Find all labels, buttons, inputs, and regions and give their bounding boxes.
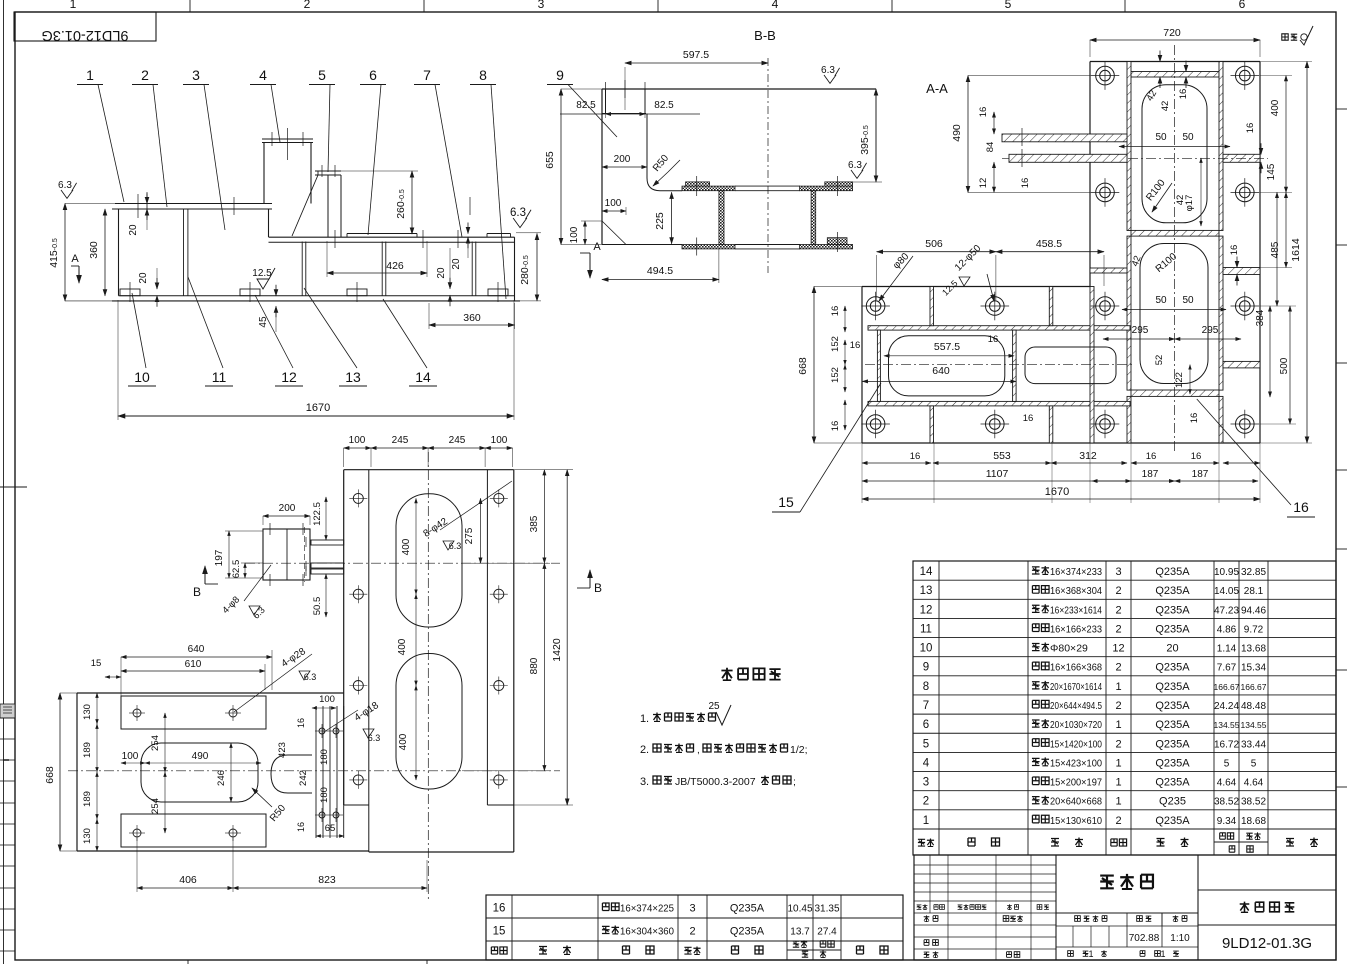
svg-text:82.5: 82.5 <box>654 100 674 111</box>
svg-text:Q235A: Q235A <box>1155 604 1190 616</box>
svg-text:42: 42 <box>1160 101 1171 112</box>
svg-text:15: 15 <box>493 926 506 938</box>
svg-text:225: 225 <box>654 212 666 230</box>
svg-text:16: 16 <box>1229 245 1240 256</box>
svg-text:2: 2 <box>1115 815 1121 827</box>
svg-text:16: 16 <box>830 421 841 432</box>
svg-text:9LD12-01.3G: 9LD12-01.3G <box>41 27 128 43</box>
svg-text:640: 640 <box>188 644 205 655</box>
svg-text:38.52: 38.52 <box>1241 797 1266 808</box>
svg-text:10: 10 <box>920 643 933 655</box>
svg-text:16: 16 <box>850 340 861 351</box>
svg-text:5: 5 <box>318 67 326 83</box>
svg-text:6.3: 6.3 <box>848 160 862 171</box>
svg-text:15×1420×100: 15×1420×100 <box>1050 738 1102 750</box>
svg-text:823: 823 <box>318 874 336 886</box>
svg-text:A-A: A-A <box>926 81 948 96</box>
svg-text:A: A <box>593 241 601 253</box>
svg-text:245: 245 <box>449 435 466 446</box>
svg-text:;: ; <box>793 776 796 788</box>
svg-text:16: 16 <box>1020 178 1031 189</box>
svg-text:Q235A: Q235A <box>1155 777 1190 789</box>
svg-text:15: 15 <box>91 658 102 669</box>
svg-text:275: 275 <box>464 527 475 544</box>
svg-text:Φ80×29: Φ80×29 <box>1050 643 1088 655</box>
svg-text:12.5: 12.5 <box>252 268 272 279</box>
svg-text:100: 100 <box>569 226 580 243</box>
svg-text:20×1030×720: 20×1030×720 <box>1050 719 1102 731</box>
svg-text:15×200×197: 15×200×197 <box>1050 777 1102 789</box>
svg-text:8: 8 <box>479 67 487 83</box>
svg-text:62.5: 62.5 <box>231 560 242 579</box>
svg-text:16: 16 <box>988 334 999 345</box>
svg-text:45: 45 <box>258 316 269 328</box>
svg-text:50: 50 <box>1182 295 1194 306</box>
svg-text:33.44: 33.44 <box>1241 739 1266 750</box>
svg-text:16: 16 <box>1293 499 1309 515</box>
svg-text:400: 400 <box>401 538 412 555</box>
svg-text:400: 400 <box>398 733 409 750</box>
svg-text:152: 152 <box>830 367 841 383</box>
svg-text:Q235A: Q235A <box>730 926 765 938</box>
svg-text:2: 2 <box>1115 604 1121 616</box>
svg-text:16: 16 <box>910 451 921 462</box>
svg-text:13.68: 13.68 <box>1241 644 1266 655</box>
svg-text:2: 2 <box>1115 623 1121 635</box>
svg-text:187: 187 <box>1192 469 1209 480</box>
svg-text:152: 152 <box>830 336 841 352</box>
svg-text:B-B: B-B <box>754 28 776 43</box>
svg-text:2: 2 <box>1115 738 1121 750</box>
svg-text:423: 423 <box>277 742 288 758</box>
svg-text:490: 490 <box>192 751 209 762</box>
svg-text:14.05: 14.05 <box>1214 586 1239 597</box>
svg-text:406: 406 <box>179 874 197 886</box>
svg-text:400: 400 <box>397 638 408 655</box>
svg-text:25: 25 <box>708 701 720 712</box>
svg-text:11: 11 <box>212 369 227 385</box>
svg-text:1: 1 <box>1115 796 1121 808</box>
svg-text:11: 11 <box>920 623 932 635</box>
svg-text:Q235A: Q235A <box>1155 566 1190 578</box>
svg-text:Q235A: Q235A <box>730 903 765 915</box>
svg-text:JB/T5000.3-2007: JB/T5000.3-2007 <box>675 776 756 788</box>
svg-text:20: 20 <box>138 272 149 284</box>
svg-text:4: 4 <box>772 0 779 11</box>
svg-text:14: 14 <box>920 566 933 578</box>
svg-text:14: 14 <box>415 369 431 385</box>
svg-text:245: 245 <box>392 435 409 446</box>
svg-text:1: 1 <box>86 67 94 83</box>
svg-text:145: 145 <box>1266 163 1277 180</box>
svg-text:Q235: Q235 <box>1159 796 1186 808</box>
svg-text:B: B <box>193 585 201 599</box>
svg-text:494.5: 494.5 <box>647 265 673 277</box>
svg-text:16×374×225: 16×374×225 <box>620 903 674 915</box>
svg-text:20×640×668: 20×640×668 <box>1050 796 1102 808</box>
svg-text:13.7: 13.7 <box>790 927 810 938</box>
svg-text:9: 9 <box>923 662 929 674</box>
svg-text:Q235A: Q235A <box>1155 757 1190 769</box>
svg-text:12: 12 <box>1112 643 1124 655</box>
svg-text:7: 7 <box>923 700 929 712</box>
svg-text:16: 16 <box>296 822 306 832</box>
svg-text:8: 8 <box>923 681 929 693</box>
svg-text:18.68: 18.68 <box>1241 816 1266 827</box>
svg-text:16×304×360: 16×304×360 <box>620 926 674 938</box>
svg-text:16: 16 <box>1245 123 1256 134</box>
svg-text:1: 1 <box>923 815 929 827</box>
svg-text:B: B <box>594 581 602 595</box>
svg-text:2: 2 <box>1115 585 1121 597</box>
svg-text:6.3: 6.3 <box>510 207 526 219</box>
svg-text:.: . <box>646 776 649 788</box>
svg-text:6.3: 6.3 <box>304 672 317 682</box>
svg-text:50: 50 <box>1182 132 1194 143</box>
svg-text:1: 1 <box>1115 681 1121 693</box>
svg-text:20: 20 <box>128 224 139 236</box>
svg-text:20×644×494.5: 20×644×494.5 <box>1050 700 1102 712</box>
svg-text:15: 15 <box>778 494 794 510</box>
svg-text:360: 360 <box>88 241 100 259</box>
svg-text:38.52: 38.52 <box>1214 797 1239 808</box>
svg-text:65: 65 <box>325 823 336 834</box>
svg-text:12: 12 <box>978 178 989 189</box>
svg-text:1:10: 1:10 <box>1170 933 1190 944</box>
svg-text:9LD12-01.3G: 9LD12-01.3G <box>1222 935 1312 952</box>
svg-text:20: 20 <box>436 267 447 279</box>
svg-text:1: 1 <box>1160 949 1165 959</box>
svg-text:166.67: 166.67 <box>1214 682 1240 692</box>
svg-text:640: 640 <box>932 365 950 377</box>
svg-text:.: . <box>646 713 649 725</box>
svg-text:A: A <box>71 253 79 265</box>
svg-text:4.86: 4.86 <box>1217 624 1237 635</box>
svg-text:48.48: 48.48 <box>1241 701 1266 712</box>
svg-text:1: 1 <box>1115 757 1121 769</box>
svg-text:16: 16 <box>296 718 306 728</box>
svg-text:5: 5 <box>1224 758 1230 769</box>
svg-text:50: 50 <box>1155 132 1167 143</box>
svg-text:122.5: 122.5 <box>312 502 323 526</box>
svg-text:1107: 1107 <box>986 468 1009 480</box>
svg-text:1: 1 <box>1088 949 1093 959</box>
svg-text:610: 610 <box>185 659 202 670</box>
svg-text:27.4: 27.4 <box>817 927 837 938</box>
svg-text:16×233×1614: 16×233×1614 <box>1050 604 1102 616</box>
svg-text:Q235A: Q235A <box>1155 623 1190 635</box>
svg-text:31.35: 31.35 <box>814 904 839 915</box>
svg-text:100: 100 <box>491 435 508 446</box>
svg-text:1: 1 <box>1115 777 1121 789</box>
svg-text:16: 16 <box>1191 451 1202 462</box>
svg-text:134.55: 134.55 <box>1241 720 1267 730</box>
svg-text:485: 485 <box>1270 241 1281 258</box>
svg-text:Q235A: Q235A <box>1155 662 1190 674</box>
svg-text:1614: 1614 <box>1290 238 1302 262</box>
svg-text:426: 426 <box>386 260 404 272</box>
svg-text:880: 880 <box>529 657 540 674</box>
svg-text:1: 1 <box>70 0 77 11</box>
svg-text:7: 7 <box>423 67 431 83</box>
svg-text:2: 2 <box>923 796 929 808</box>
svg-text:4: 4 <box>259 67 267 83</box>
svg-text:122: 122 <box>1174 372 1185 388</box>
svg-text:2: 2 <box>141 67 149 83</box>
svg-text:9.34: 9.34 <box>1217 816 1237 827</box>
svg-text:50.5: 50.5 <box>312 597 323 616</box>
svg-text:7.67: 7.67 <box>1217 663 1237 674</box>
svg-text:180: 180 <box>319 749 330 765</box>
svg-text:12: 12 <box>920 604 933 616</box>
svg-text:2: 2 <box>689 926 695 938</box>
svg-text:9.72: 9.72 <box>1244 624 1264 635</box>
svg-text:Q235A: Q235A <box>1155 719 1190 731</box>
svg-text:16×374×233: 16×374×233 <box>1050 566 1102 578</box>
svg-text:189: 189 <box>82 742 93 758</box>
svg-text:400: 400 <box>1270 99 1281 116</box>
svg-text:1670: 1670 <box>306 402 330 414</box>
svg-text:384: 384 <box>1255 309 1266 326</box>
svg-text:50: 50 <box>1155 295 1167 306</box>
svg-text:490: 490 <box>951 124 963 142</box>
svg-text:295: 295 <box>1202 325 1219 336</box>
svg-text:458.5: 458.5 <box>1036 238 1062 250</box>
svg-text:100: 100 <box>349 435 366 446</box>
svg-text:130: 130 <box>82 704 93 720</box>
svg-text:1.14: 1.14 <box>1217 644 1237 655</box>
svg-text:20: 20 <box>1166 643 1178 655</box>
svg-text:1: 1 <box>1115 719 1121 731</box>
svg-text:4.64: 4.64 <box>1244 778 1264 789</box>
svg-text:655: 655 <box>544 151 556 169</box>
svg-text:28.1: 28.1 <box>1244 586 1264 597</box>
svg-text:Q235A: Q235A <box>1155 700 1190 712</box>
svg-text:200: 200 <box>279 503 296 514</box>
svg-text:16×166×368: 16×166×368 <box>1050 662 1102 674</box>
svg-text:84: 84 <box>985 142 996 153</box>
svg-text:16×368×304: 16×368×304 <box>1050 585 1102 597</box>
svg-text:Q235A: Q235A <box>1155 815 1190 827</box>
svg-text:597.5: 597.5 <box>683 49 709 61</box>
svg-text:15×423×100: 15×423×100 <box>1050 757 1102 769</box>
svg-text:187: 187 <box>1142 469 1159 480</box>
svg-text:φ17: φ17 <box>1184 195 1195 212</box>
svg-text:720: 720 <box>1163 27 1181 39</box>
svg-text:246: 246 <box>216 770 227 786</box>
svg-text:20: 20 <box>451 258 462 270</box>
svg-text:4.64: 4.64 <box>1217 778 1237 789</box>
svg-text:Q235A: Q235A <box>1155 738 1190 750</box>
svg-text:6: 6 <box>369 67 377 83</box>
svg-text:6.3: 6.3 <box>58 180 72 191</box>
svg-text:360: 360 <box>463 312 481 324</box>
svg-text:100: 100 <box>122 751 139 762</box>
svg-text:5: 5 <box>1251 758 1257 769</box>
svg-text:16: 16 <box>1178 89 1189 100</box>
svg-text:6.3: 6.3 <box>449 541 462 551</box>
svg-text:9: 9 <box>556 67 564 83</box>
svg-text:47.23: 47.23 <box>1214 605 1239 616</box>
svg-text:3: 3 <box>1115 566 1121 578</box>
svg-text:312: 312 <box>1079 450 1097 462</box>
svg-text:3: 3 <box>538 0 545 11</box>
svg-text:295: 295 <box>1132 325 1149 336</box>
svg-text:16: 16 <box>1146 451 1157 462</box>
svg-text:,: , <box>697 745 700 756</box>
svg-text:52: 52 <box>1154 355 1165 366</box>
svg-text:197: 197 <box>214 549 225 566</box>
svg-text:3: 3 <box>689 903 695 915</box>
svg-text:20×1670×1614: 20×1670×1614 <box>1050 681 1102 693</box>
svg-text:553: 553 <box>993 450 1011 462</box>
svg-text:1/2;: 1/2; <box>790 744 808 756</box>
svg-text:506: 506 <box>925 238 943 250</box>
svg-text:100: 100 <box>319 694 335 705</box>
svg-text:2: 2 <box>304 0 311 11</box>
svg-text:1670: 1670 <box>1045 486 1069 498</box>
svg-text:2: 2 <box>1115 662 1121 674</box>
svg-text:242: 242 <box>298 770 309 786</box>
svg-text:702.88: 702.88 <box>1129 933 1160 944</box>
svg-text:254: 254 <box>150 735 161 751</box>
svg-text:82.5: 82.5 <box>576 100 596 111</box>
svg-text:254: 254 <box>150 798 161 814</box>
svg-text:13: 13 <box>920 585 933 597</box>
svg-text:Q235A: Q235A <box>1155 585 1190 597</box>
svg-text:16: 16 <box>1023 413 1034 424</box>
svg-text:180: 180 <box>319 787 330 803</box>
svg-text:32.85: 32.85 <box>1241 567 1266 578</box>
svg-text:13: 13 <box>345 369 361 385</box>
svg-text:189: 189 <box>82 791 93 807</box>
svg-text:16.72: 16.72 <box>1214 739 1239 750</box>
svg-text:2: 2 <box>1115 700 1121 712</box>
svg-text:.: . <box>646 744 649 756</box>
svg-text:668: 668 <box>797 357 809 375</box>
svg-text:16×166×233: 16×166×233 <box>1050 623 1102 635</box>
svg-text:668: 668 <box>44 766 56 784</box>
svg-text:134.55: 134.55 <box>1214 720 1240 730</box>
svg-text:15.34: 15.34 <box>1241 663 1266 674</box>
svg-text:15×130×610: 15×130×610 <box>1050 815 1102 827</box>
svg-text:6: 6 <box>1239 0 1246 11</box>
svg-text:6: 6 <box>923 719 929 731</box>
svg-text:500: 500 <box>1279 357 1290 374</box>
svg-text:4: 4 <box>923 757 930 769</box>
svg-text:16: 16 <box>1189 413 1200 424</box>
svg-text:100: 100 <box>605 198 622 209</box>
svg-text:Q235A: Q235A <box>1155 681 1190 693</box>
svg-text:10.45: 10.45 <box>787 904 812 915</box>
svg-text:5: 5 <box>1005 0 1012 11</box>
svg-text:557.5: 557.5 <box>934 341 960 353</box>
svg-text:6.3: 6.3 <box>368 733 381 743</box>
svg-text:10: 10 <box>134 369 150 385</box>
svg-text:94.46: 94.46 <box>1241 605 1266 616</box>
svg-text:385: 385 <box>529 515 540 532</box>
svg-text:3: 3 <box>923 777 929 789</box>
svg-text:166.67: 166.67 <box>1241 682 1267 692</box>
svg-text:130: 130 <box>82 828 93 844</box>
svg-text:12: 12 <box>281 369 297 385</box>
svg-text:200: 200 <box>614 154 631 165</box>
svg-text:16: 16 <box>830 306 841 317</box>
svg-text:16: 16 <box>493 903 506 915</box>
svg-text:3: 3 <box>192 67 200 83</box>
svg-text:16: 16 <box>978 107 989 118</box>
svg-text:24.24: 24.24 <box>1214 701 1239 712</box>
svg-text:10.95: 10.95 <box>1214 567 1239 578</box>
svg-text:1420: 1420 <box>551 638 563 662</box>
svg-text:5: 5 <box>923 738 929 750</box>
svg-text:6.3: 6.3 <box>821 65 835 76</box>
